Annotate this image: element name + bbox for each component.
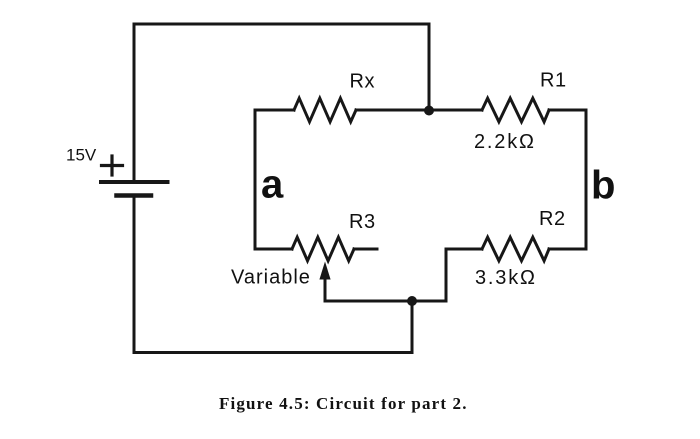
svg-text:Variable: Variable <box>231 267 311 289</box>
svg-text:R3: R3 <box>349 211 376 233</box>
wire: wiper arrow shaft of R3 <box>324 273 327 301</box>
wire: top loop from battery positive to top-right corner <box>134 24 429 181</box>
svg-text:Figure 4.5: Circuit for part 2: Figure 4.5: Circuit for part 2. <box>219 394 468 413</box>
wire: R1 to node b corner <box>549 109 586 112</box>
node junction dot (top, Rx/R1/battery) <box>424 106 434 116</box>
svg-text:R2: R2 <box>539 208 566 230</box>
svg-text:b: b <box>591 164 615 208</box>
wire: node a vertical branch <box>254 110 257 249</box>
wire: step to R2 <box>446 248 482 251</box>
battery B1 short plate (negative) <box>117 193 152 198</box>
wire: battery negative down and bottom wire to lower junction <box>134 196 412 353</box>
wire: Rx to top junction <box>356 109 429 112</box>
svg-text:R1: R1 <box>540 70 567 92</box>
wiper arrowhead of R3 <box>319 262 330 280</box>
wire: R3 right open stub <box>354 248 377 251</box>
svg-text:3.3kΩ: 3.3kΩ <box>475 267 537 289</box>
wire: top junction to R1 <box>429 109 482 112</box>
wire: node b vertical branch <box>585 110 588 249</box>
resistor R3 zigzag (variable) <box>292 237 354 261</box>
wire: node a horizontal lead into Rx <box>255 109 294 112</box>
svg-text:2.2kΩ: 2.2kΩ <box>474 131 536 153</box>
resistor R2 zigzag <box>482 237 549 261</box>
node junction dot (bottom, wiper/R2/battery) <box>407 296 417 306</box>
svg-text:a: a <box>261 163 284 207</box>
battery B1 long plate (positive) <box>101 180 168 184</box>
svg-text:15V: 15V <box>66 146 97 165</box>
label + (battery polarity) <box>102 156 123 175</box>
wire: lower middle horizontal (wiper to step) <box>325 300 446 303</box>
resistor R1 zigzag <box>482 98 549 122</box>
wire: R2 to node b corner <box>549 248 586 251</box>
wire: step up to R2 row <box>445 249 448 301</box>
wire: node a corner lead into R3 <box>255 248 292 251</box>
resistor Rx zigzag <box>294 98 356 122</box>
svg-text:Rx: Rx <box>350 71 375 93</box>
